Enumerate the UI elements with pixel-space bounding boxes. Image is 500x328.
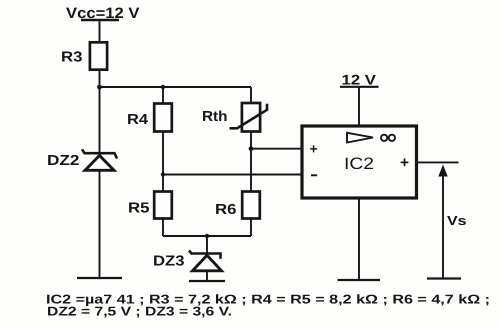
wire R5 to lower rail [162, 219, 164, 237]
resistor R4 [127, 104, 172, 132]
zener diode DZ3 [153, 251, 222, 271]
infinity gain symbol [381, 135, 395, 141]
svg-text:IC2: IC2 [344, 155, 374, 173]
wire DZ3 to bottom bar [206, 272, 208, 282]
op-amp IC2 box [302, 126, 417, 198]
wire plus tap to op-amp plus input [251, 148, 302, 150]
node 12V terminal bar [340, 86, 379, 88]
svg-text:Rth: Rth [202, 109, 228, 125]
node junction dot DZ3 tap [205, 234, 209, 238]
wire DZ2 to bottom bar [99, 171, 101, 278]
wire Vcc bar to R3 [99, 20, 101, 42]
wire R3 to node A [99, 70, 101, 88]
op-amp triangle symbol [347, 133, 373, 143]
node junction dot plus tap [249, 146, 254, 151]
wire top rail to Rth [250, 87, 252, 103]
zener diode DZ2 [47, 149, 117, 170]
node Vcc terminal bar [81, 19, 119, 21]
node A junction dot [97, 85, 102, 90]
wire node A down to DZ2 [99, 87, 101, 153]
wire IC2 ground [358, 198, 360, 280]
resistor R3 [61, 42, 107, 69]
arrow Vs [438, 165, 466, 279]
svg-text:Vs: Vs [447, 213, 467, 228]
svg-text:R3: R3 [61, 50, 83, 66]
ground terminal bar under DZ3 [189, 280, 225, 282]
svg-text:R6: R6 [215, 202, 237, 218]
wire lower rail to DZ3 [206, 236, 208, 254]
ground terminal bar under IC2 [338, 279, 381, 281]
svg-text:DZ2 = 7,5 V ; DZ3 = 3,6 V.: DZ2 = 7,5 V ; DZ3 = 3,6 V. [47, 304, 232, 319]
resistor R5 [128, 192, 172, 219]
wire output [418, 161, 459, 163]
node junction dot at R4 top [161, 85, 165, 89]
node junction dot mid-left [161, 172, 165, 176]
wire mid rail to R5 [162, 175, 164, 192]
thermistor Rth [202, 103, 267, 132]
wire top rail node A to Rth [100, 86, 252, 88]
wire R6 to lower rail [250, 219, 252, 237]
wire 12V to IC2 [358, 87, 360, 126]
svg-text:R5: R5 [128, 201, 150, 217]
svg-text:DZ2: DZ2 [47, 153, 80, 169]
svg-text:+: + [400, 154, 409, 171]
resistor R6 [215, 192, 260, 219]
ground terminal bar left [77, 277, 122, 279]
svg-text:R4: R4 [127, 112, 148, 128]
svg-text:+: + [310, 141, 318, 157]
pin minus input sign [311, 174, 317, 176]
svg-text:12 V: 12 V [342, 72, 377, 88]
wire top rail to R4 [162, 87, 164, 103]
svg-text:DZ3: DZ3 [153, 254, 185, 270]
wire lower rail [163, 235, 251, 237]
wire R4 to mid rail [162, 132, 164, 175]
wire Rth to R6 [250, 132, 252, 192]
ground terminal bar right [427, 277, 461, 279]
wire mid rail to op-amp minus input [163, 174, 302, 176]
